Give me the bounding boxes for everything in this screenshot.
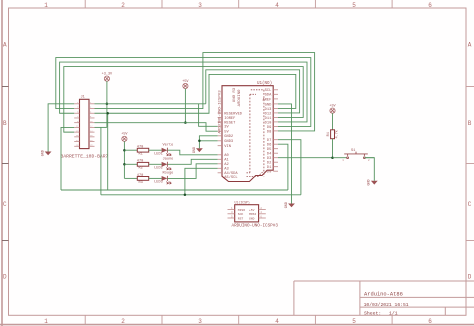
wire U1 D6 riser bbox=[278, 144, 288, 190]
U1 inner dashed bus A4-SDA vertical bbox=[249, 94, 251, 173]
wire +5V led rail vertical bbox=[123, 141, 125, 178]
ground symbol below U1 bbox=[288, 204, 295, 208]
node junction A3 riser bbox=[184, 194, 187, 197]
svg-text:GND: GND bbox=[193, 147, 197, 153]
svg-text:A: A bbox=[3, 42, 7, 49]
wire net J1 row3 loop to U1 D13 bbox=[95, 74, 296, 113]
op-amp U1 arduino body outline bbox=[222, 86, 273, 182]
svg-text:B: B bbox=[468, 120, 472, 127]
svg-text:ARDUINO: ARDUINO bbox=[238, 89, 242, 106]
svg-text:Verte: Verte bbox=[163, 143, 174, 148]
svg-text:R4: R4 bbox=[327, 132, 331, 136]
wire net J1 row2-left loop to U1 D9 bbox=[56, 58, 311, 127]
U1 SCL SDA dashed pin marks bbox=[251, 89, 264, 91]
svg-text:MOSI: MOSI bbox=[249, 213, 256, 216]
wire gnd left vertical to J1 pin1 bbox=[48, 104, 74, 152]
connector J1 BARRETTE_10D-BAR7 body bbox=[80, 99, 90, 148]
supply +5V top symbol bbox=[183, 83, 188, 88]
svg-text:Sheet:: Sheet: bbox=[364, 311, 381, 317]
svg-text:4.7k: 4.7k bbox=[334, 130, 339, 138]
svg-text:S1: S1 bbox=[351, 149, 355, 153]
svg-text:+5V: +5V bbox=[329, 104, 336, 108]
svg-text:D1: D1 bbox=[267, 166, 272, 170]
wire net A3 riser bbox=[185, 168, 218, 195]
wire S1 to ground bbox=[366, 158, 374, 181]
wire net J1 row5 to U1 5V bbox=[95, 123, 218, 132]
svg-text:D4: D4 bbox=[267, 153, 272, 157]
wire LED1 to U1 A0 bbox=[167, 150, 217, 155]
title block sheet sub-cell bbox=[444, 307, 446, 315]
wire bottom rail lower bbox=[101, 194, 301, 196]
svg-text:GND: GND bbox=[265, 103, 272, 107]
node junction +3.3V on row1 bbox=[106, 103, 109, 106]
node junction +5V on row5 bbox=[184, 121, 187, 124]
svg-text:GND: GND bbox=[368, 179, 372, 185]
svg-text:A: A bbox=[468, 42, 472, 49]
svg-text:2: 2 bbox=[121, 318, 125, 325]
title block outline bbox=[294, 280, 474, 282]
svg-text:ARDUINO-UNO-ICSP#3: ARDUINO-UNO-ICSP#3 bbox=[219, 90, 223, 134]
ground symbol bottom right bbox=[371, 181, 378, 185]
svg-text:D6: D6 bbox=[267, 144, 271, 148]
svg-text:LED1: LED1 bbox=[154, 152, 163, 156]
supply +5V led rail symbol bbox=[122, 136, 127, 141]
svg-text:D13: D13 bbox=[265, 108, 272, 112]
frame row ticks left bbox=[2, 86, 9, 88]
svg-text:A1: A1 bbox=[224, 159, 229, 163]
resistor R4 bbox=[332, 113, 334, 130]
node junction gnd center bbox=[198, 140, 201, 143]
svg-text:D: D bbox=[468, 274, 472, 281]
svg-text:3V: 3V bbox=[224, 126, 229, 130]
svg-text:GND2: GND2 bbox=[224, 135, 233, 139]
svg-text:SCK: SCK bbox=[238, 213, 244, 216]
svg-text:SCL: SCL bbox=[265, 89, 272, 93]
svg-text:A3: A3 bbox=[224, 168, 228, 172]
U1 ICSP right pins bbox=[259, 209, 266, 211]
svg-text:+5V: +5V bbox=[249, 209, 255, 212]
svg-text:4: 4 bbox=[275, 2, 279, 9]
U1 left pin stubs bbox=[218, 112, 222, 114]
svg-text:Arduino-At86: Arduino-At86 bbox=[364, 292, 403, 298]
U1 right pin stubs bbox=[273, 89, 278, 91]
svg-text:D: D bbox=[3, 274, 7, 281]
wire net +3.3V to U1 3V pin staircase bbox=[199, 104, 218, 127]
frame row ticks right bbox=[466, 86, 474, 88]
LED LED2 Jaune bbox=[149, 163, 162, 165]
svg-text:R1: R1 bbox=[139, 153, 143, 157]
svg-text:RESERVED: RESERVED bbox=[224, 112, 242, 116]
supply +5V R4 symbol bbox=[330, 108, 335, 113]
supply +3.3V symbol bbox=[104, 76, 109, 81]
svg-text:J1: J1 bbox=[81, 96, 85, 100]
U1 dashed net A4 SDA bbox=[247, 172, 250, 174]
svg-text:+5V: +5V bbox=[182, 80, 189, 84]
svg-text:ARDUINO-UNO-ICSP#3: ARDUINO-UNO-ICSP#3 bbox=[232, 223, 279, 228]
svg-text:1: 1 bbox=[44, 318, 48, 325]
connector J1 right pins bbox=[89, 103, 95, 105]
svg-text:MISO: MISO bbox=[238, 209, 245, 212]
wire U1 D7 riser bbox=[278, 140, 301, 195]
svg-text:D9: D9 bbox=[267, 126, 271, 130]
frame column ticks top bbox=[84, 0, 86, 8]
LED LED3 Rouge bbox=[149, 177, 162, 179]
resistor R1 bbox=[124, 149, 137, 151]
svg-text:D7: D7 bbox=[267, 139, 271, 143]
svg-text:6: 6 bbox=[428, 2, 432, 9]
svg-text:4: 4 bbox=[275, 318, 279, 325]
wire net J1 row6-left riser bbox=[61, 127, 74, 190]
svg-text:GND: GND bbox=[285, 202, 289, 208]
node junction row3 riser bbox=[106, 112, 109, 115]
svg-text:B: B bbox=[3, 120, 7, 127]
svg-text:5V: 5V bbox=[224, 131, 229, 135]
wire net J1 row1 loop to U1 D12 bbox=[206, 70, 300, 113]
svg-text:LED2: LED2 bbox=[154, 166, 163, 170]
wire LED3 to U1 A2 bbox=[167, 164, 217, 179]
wire bottom rail upper bbox=[61, 189, 288, 191]
svg-text:SDA: SDA bbox=[265, 94, 272, 98]
svg-text:+5V: +5V bbox=[121, 133, 128, 137]
svg-text:LED3: LED3 bbox=[154, 181, 163, 185]
wire U1 D3 to R4 S1 bbox=[278, 157, 333, 159]
svg-text:U1(NO): U1(NO) bbox=[257, 81, 272, 86]
svg-text:470: 470 bbox=[137, 160, 143, 164]
U1 inner dashed bus A5-SCL vertical bbox=[263, 90, 265, 177]
svg-text:2: 2 bbox=[121, 2, 125, 9]
frame column ticks bottom bbox=[84, 315, 86, 324]
wire net J1 row6-right stub rail bbox=[95, 126, 107, 128]
svg-text:R2: R2 bbox=[139, 167, 143, 171]
svg-text:D3: D3 bbox=[267, 157, 271, 161]
svg-text:A2: A2 bbox=[224, 163, 228, 167]
sheet outer border bottom edge bbox=[0, 324, 474, 326]
ground symbol left bbox=[45, 152, 52, 156]
svg-text:D12: D12 bbox=[265, 112, 272, 116]
wire net J1 row6-right riser bbox=[100, 127, 102, 194]
wire net J1 row3-left loop to U1 D10 bbox=[60, 62, 307, 122]
svg-text:RST: RST bbox=[238, 217, 244, 220]
title block row line 1 bbox=[360, 296, 474, 298]
node junction led rail R2 bbox=[123, 163, 126, 166]
node junction led rail R1 bbox=[123, 149, 126, 152]
wire net J1 row7-left loop to U1 D11 bbox=[64, 67, 303, 133]
svg-text:1: 1 bbox=[44, 2, 48, 9]
svg-text:Jaune: Jaune bbox=[163, 158, 174, 162]
wire +5V top drop bbox=[184, 89, 186, 123]
wire LED2 to U1 A1 bbox=[167, 159, 217, 164]
svg-text:AREF: AREF bbox=[262, 98, 271, 102]
wire +3.3V drop bbox=[106, 81, 108, 127]
ground symbol center bbox=[196, 148, 203, 152]
svg-text:3: 3 bbox=[198, 2, 202, 9]
svg-text:D0: D0 bbox=[267, 171, 271, 175]
svg-text:D8: D8 bbox=[267, 130, 271, 134]
svg-text:6: 6 bbox=[428, 318, 432, 325]
svg-text:5: 5 bbox=[352, 2, 356, 9]
svg-text:D5: D5 bbox=[267, 148, 271, 152]
svg-text:GND: GND bbox=[42, 150, 46, 156]
switch S1 bbox=[333, 157, 347, 159]
svg-text:3: 3 bbox=[198, 318, 202, 325]
wire U1 GND2 GND3 to ground bbox=[199, 136, 217, 149]
connector J1 left pins bbox=[74, 103, 79, 105]
svg-text:R3: R3 bbox=[139, 181, 143, 185]
svg-text:5: 5 bbox=[352, 318, 356, 325]
svg-text:GND: GND bbox=[249, 217, 255, 220]
svg-text:IOREF: IOREF bbox=[224, 117, 235, 121]
svg-text:470: 470 bbox=[137, 146, 143, 150]
U1 ICSP left pins bbox=[228, 209, 235, 211]
svg-text:GND3: GND3 bbox=[224, 140, 233, 144]
svg-text:C: C bbox=[3, 201, 7, 208]
svg-text:1/1: 1/1 bbox=[389, 311, 398, 317]
svg-text:D11: D11 bbox=[265, 117, 272, 121]
svg-text:Rouge: Rouge bbox=[163, 172, 174, 176]
svg-text:D2: D2 bbox=[267, 162, 271, 166]
wire net J1 row1 to U1 3V bbox=[95, 103, 206, 105]
wire U1 GND pin drop bbox=[278, 104, 292, 204]
svg-text:UNO R3: UNO R3 bbox=[233, 87, 237, 102]
svg-text:+3.3V: +3.3V bbox=[102, 72, 113, 76]
sheet outer border left edge bbox=[1, 0, 3, 326]
svg-text:VIN: VIN bbox=[224, 145, 231, 149]
node junction R4 S1 bbox=[331, 156, 334, 159]
resistor R3 bbox=[124, 177, 137, 179]
svg-text:470: 470 bbox=[137, 174, 143, 178]
wire net J1 row2 loop to U1 D8 bbox=[95, 53, 315, 131]
wire row3 riser to bottom rail bbox=[107, 113, 109, 190]
svg-text:10/03/2021 16:51: 10/03/2021 16:51 bbox=[364, 302, 409, 308]
connector U1 ICSP body bbox=[235, 205, 259, 222]
LED LED1 Verte bbox=[149, 149, 162, 151]
title block row line 2 bbox=[360, 306, 474, 308]
svg-text:D10: D10 bbox=[265, 121, 272, 125]
svg-text:U1(ICSP): U1(ICSP) bbox=[235, 200, 250, 204]
U1 dashed net A5 SCL bbox=[247, 176, 258, 178]
svg-text:A0: A0 bbox=[224, 154, 228, 158]
svg-text:C: C bbox=[468, 201, 472, 208]
resistor R2 bbox=[124, 163, 137, 165]
svg-text:A5/SCL: A5/SCL bbox=[224, 175, 237, 180]
